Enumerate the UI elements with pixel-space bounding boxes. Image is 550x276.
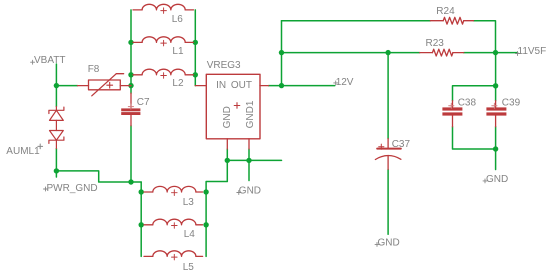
svg-text:OUT: OUT (231, 80, 252, 91)
capacitor C38 plus mark (449, 103, 454, 108)
junction node lower-left bus L4 (139, 222, 144, 227)
capacitor C37 (polarized) (375, 139, 401, 170)
junction node C38/C39 bottom (493, 146, 498, 151)
svg-text:C38: C38 (458, 98, 477, 109)
junction node lower-left bus L3 (139, 189, 144, 194)
fuse F8 (78, 74, 132, 96)
capacitor C39 (486, 107, 506, 115)
VREG3 plus mark (234, 103, 240, 109)
svg-text:IN: IN (216, 80, 226, 91)
junction node right bus L2 (193, 72, 198, 77)
svg-text:L5: L5 (183, 262, 195, 273)
svg-text:GND: GND (378, 237, 400, 248)
junction node R23/R24 right (493, 50, 498, 55)
VREG3 pin IN stub (195, 85, 206, 87)
wire C39 below to GND (495, 127, 497, 170)
junction node VREG3 gnd pin2 (246, 158, 251, 163)
inductor L6 (133, 4, 194, 13)
VREG3 pin GND1 stub (248, 139, 250, 149)
svg-text:GND: GND (239, 186, 261, 197)
svg-text:12V: 12V (336, 77, 354, 88)
diode D1 (AUML1 top zener) (49, 107, 64, 121)
junction node left bus L1 (128, 40, 133, 45)
VREG3 pin GND stub (226, 139, 228, 149)
capacitor C37 plus mark (379, 144, 384, 149)
wire VBATT vertical upper (55, 64, 57, 107)
wire PWR_GND horizontal (56, 171, 141, 182)
svg-text:AUML1: AUML1 (6, 146, 40, 157)
inductor L5 (144, 251, 203, 260)
svg-text:L3: L3 (183, 197, 195, 208)
wire R23 rail left (282, 52, 420, 54)
capacitor C38 (442, 107, 462, 115)
junction node VREG3 gnd pin1 (225, 158, 230, 163)
VREG3 pin OUT stub (260, 85, 269, 87)
resistor R23 (420, 49, 464, 56)
inductor L4 (144, 219, 203, 228)
wire C38 top link (453, 86, 496, 101)
label 11V5F cross (516, 52, 520, 56)
svg-text:GND1: GND1 (245, 100, 256, 128)
svg-text:11V5F: 11V5F (518, 46, 547, 57)
junction node VBATT/F8 (54, 83, 59, 88)
junction node left bus PWR_GND (128, 179, 133, 184)
capacitor C7 plus mark (128, 104, 133, 109)
label GND cross (below C37) (375, 242, 379, 246)
junction node VBATT/PWR_GND (54, 168, 59, 173)
capacitor C7 (121, 108, 140, 115)
svg-text:C39: C39 (502, 98, 521, 109)
svg-text:GND: GND (486, 174, 508, 185)
wire lower-left bus (140, 182, 142, 256)
diode D2 (AUML1 bottom zener) (49, 120, 64, 148)
svg-text:VREG3: VREG3 (207, 60, 241, 71)
svg-text:L2: L2 (172, 78, 184, 89)
wire VREG3 gnd pin2 to GND label (248, 149, 250, 181)
svg-text:C7: C7 (137, 97, 150, 108)
svg-text:L1: L1 (172, 46, 184, 57)
label 12V cross (334, 81, 338, 85)
junction node right bus L1 (193, 40, 198, 45)
wire OUT to 12V (269, 85, 335, 87)
inductor L2 (133, 69, 194, 78)
svg-text:F8: F8 (88, 64, 100, 75)
inductor L3 (144, 186, 203, 195)
svg-text:GND: GND (222, 106, 233, 128)
svg-text:VBATT: VBATT (34, 55, 65, 66)
junction node C38/C39 top (493, 83, 498, 88)
svg-text:L6: L6 (172, 14, 184, 25)
junction node R23 rail left (279, 50, 284, 55)
wire OUT vertical riser (281, 21, 283, 86)
wire R24 right (474, 21, 496, 53)
wire C38 bottom link (453, 127, 496, 149)
capacitor C39 plus mark (492, 103, 497, 108)
label VBATT cross (31, 60, 35, 64)
label PWR_GND cross (44, 187, 48, 191)
label GND cross (below C39) (483, 179, 487, 183)
wire C37 branch upper (387, 53, 389, 139)
wire right bus upper (194, 10, 196, 86)
wire C39 branch vertical (495, 53, 497, 101)
junction node left bus L2 (128, 72, 133, 77)
inductor L1 (133, 37, 194, 46)
wire top rail to R24 (282, 20, 431, 22)
wire VREG3 gnd rail (227, 159, 281, 161)
junction node lower-right bus L4 (203, 222, 208, 227)
svg-text:R23: R23 (426, 38, 445, 49)
wire C37 to GND (387, 169, 389, 234)
svg-text:PWR_GND: PWR_GND (47, 183, 98, 194)
wire left bus lower (below C7) (130, 126, 132, 182)
svg-text:C37: C37 (392, 139, 411, 150)
wire left bus upper (130, 10, 132, 93)
voltage regulator U1 VREG3 box (206, 74, 260, 139)
wire VREG3 gnd to lower-right bus (206, 160, 227, 256)
resistor R24 (430, 17, 473, 24)
wire VREG3 gnd pin1 (226, 149, 228, 160)
svg-text:L4: L4 (184, 229, 196, 240)
label GND cross (below VREG3) (237, 191, 241, 195)
junction node 12V riser (279, 83, 284, 88)
svg-text:R24: R24 (436, 6, 455, 17)
wire VBATT to F8 (56, 85, 77, 87)
junction node lower-right bus L3 (203, 189, 208, 194)
wire R23 right to 11V5F (464, 52, 518, 54)
label AUML1 plus mark (38, 144, 43, 149)
wire VBATT vertical lower (55, 149, 57, 178)
junction node left bus F8 (128, 83, 133, 88)
junction node C37 tap (385, 50, 390, 55)
